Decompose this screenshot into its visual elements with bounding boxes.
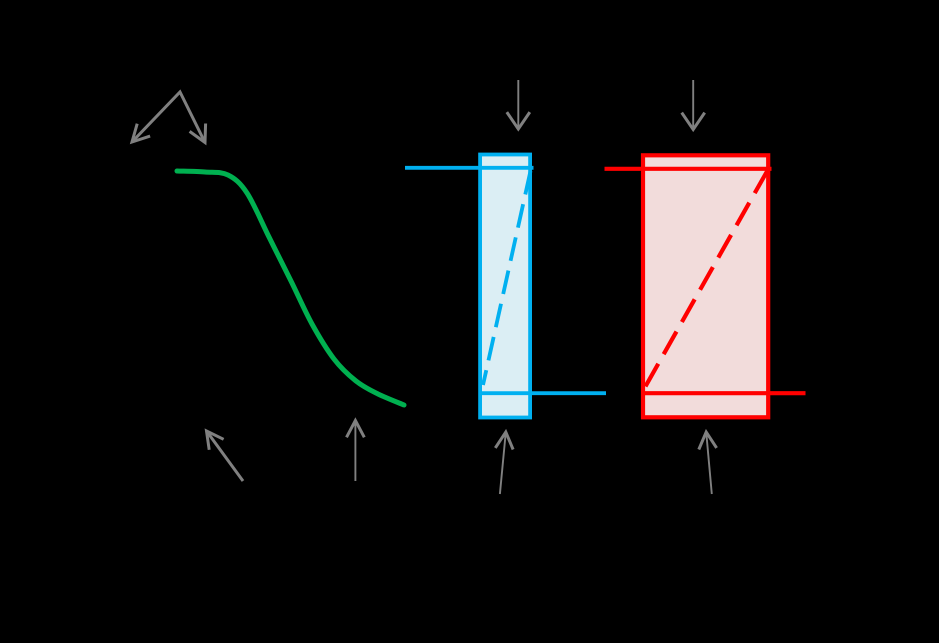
gray down arrow above red rectangle (682, 80, 705, 130)
gray down arrow above blue rectangle (507, 80, 530, 129)
gray diagonal annotation arrow lower-left (207, 431, 244, 481)
blue dashed diagonal (483, 171, 531, 385)
red unit rectangle fill (643, 155, 768, 417)
red dashed diagonal (644, 171, 768, 390)
blue top inflow line (405, 166, 534, 170)
blue bottom outflow line (480, 391, 606, 395)
red bottom outflow line (643, 391, 806, 395)
gray vertical up arrow below curve end (347, 421, 365, 482)
gray up arrow below blue rectangle (495, 432, 513, 494)
gray double-headed pointer arrow (132, 92, 206, 143)
red top inflow line (605, 167, 772, 171)
gray up arrow below red rectangle (699, 432, 717, 494)
blue unit rectangle fill (480, 155, 530, 418)
green load-duration curve (177, 171, 404, 405)
